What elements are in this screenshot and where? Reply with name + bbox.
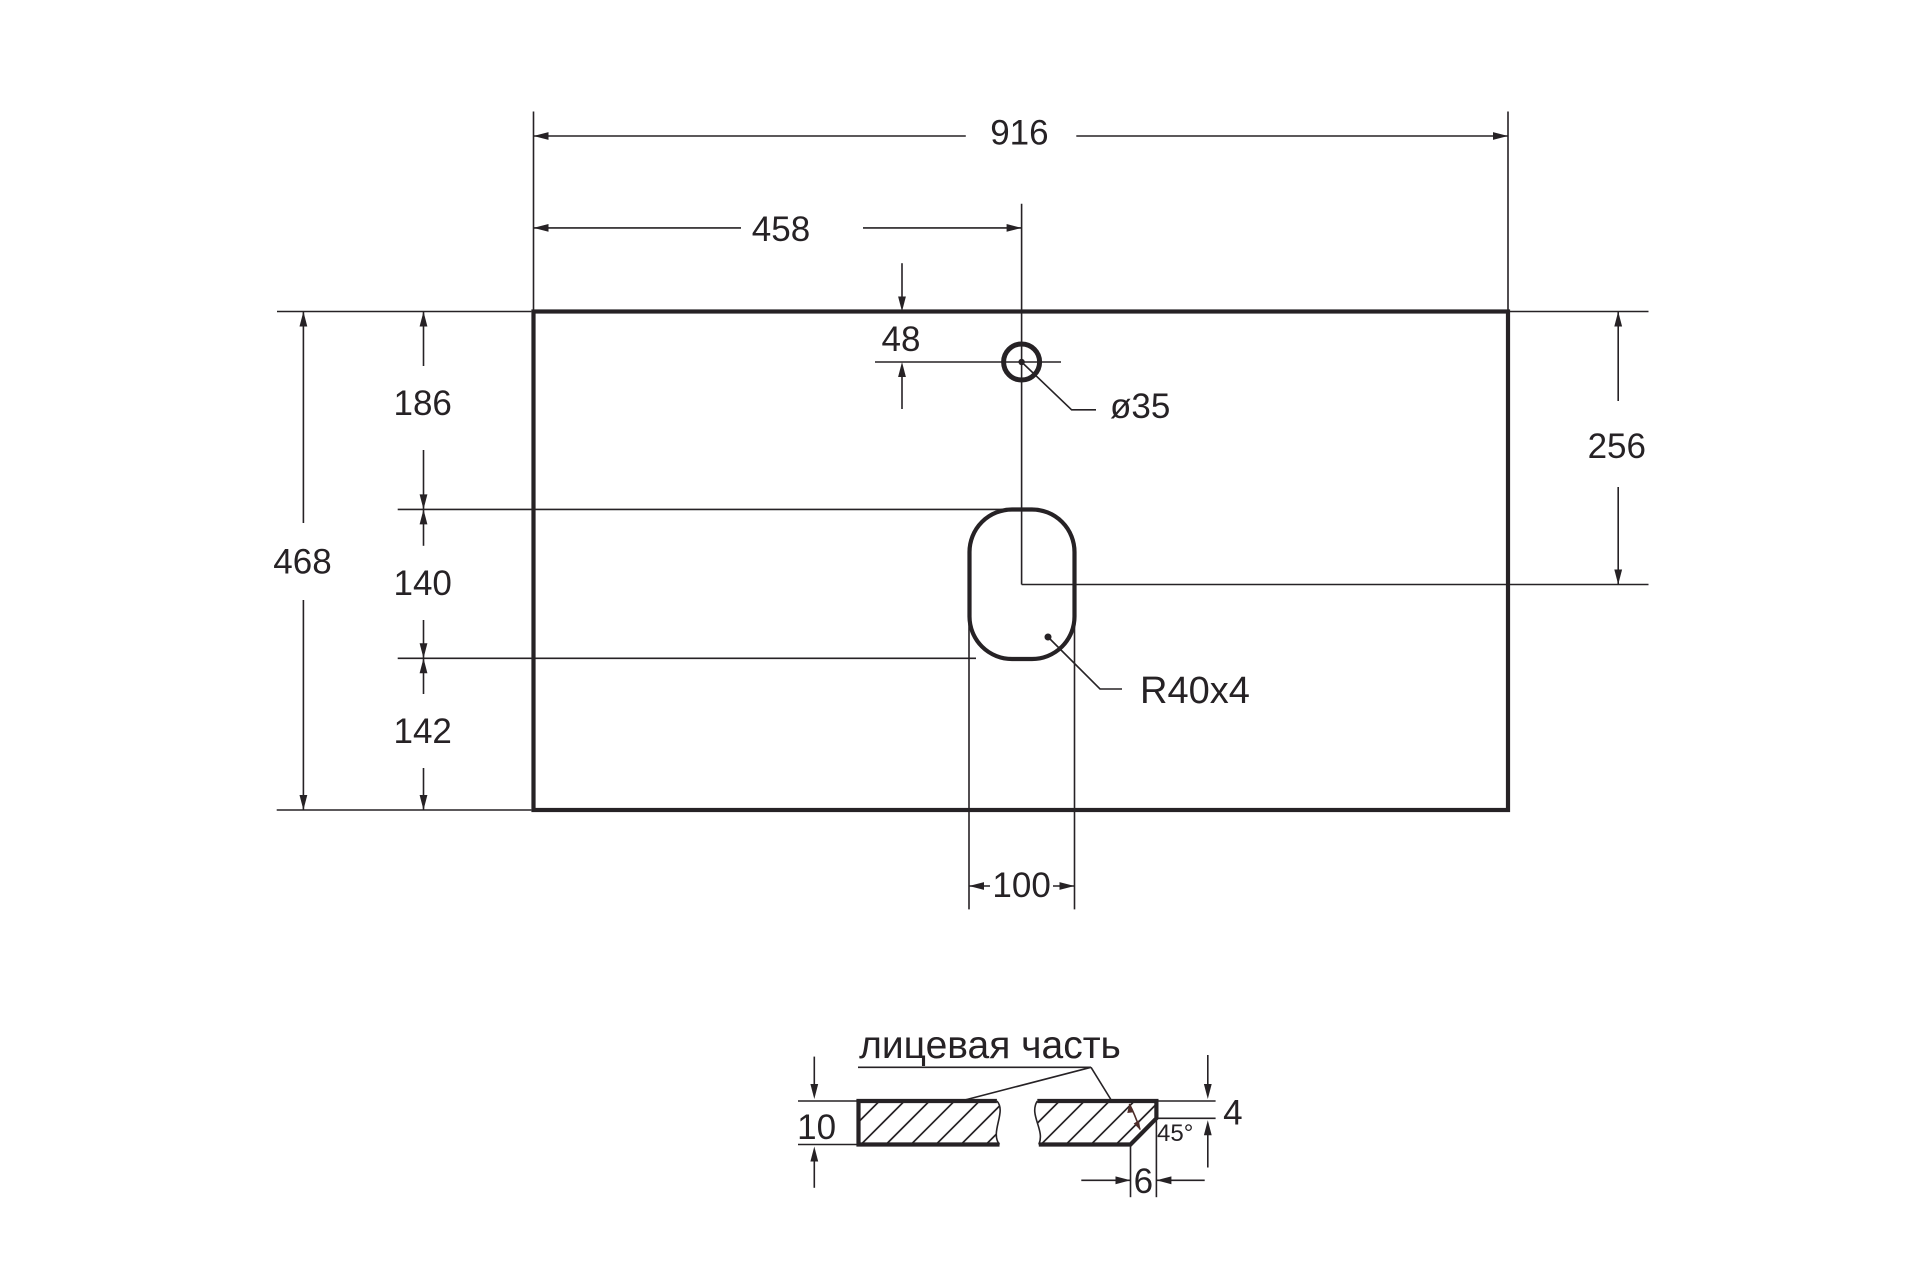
svg-text:4: 4 (1223, 1094, 1242, 1133)
section right bar outline with 45deg chamfer (1037, 1101, 1156, 1145)
extension lines for 4 (1158, 1100, 1215, 1102)
svg-text:256: 256 (1588, 427, 1646, 466)
dimension 140 (423, 509, 425, 545)
section right bar break line (1035, 1101, 1041, 1145)
extension lines for 10 (798, 1100, 857, 1102)
oval tangent line bottom (140) (398, 657, 976, 659)
svg-text:100: 100 (992, 866, 1050, 905)
countertop outline (top view) (534, 312, 1509, 811)
svg-text:140: 140 (393, 564, 451, 603)
top-right extension line (1510, 311, 1649, 313)
svg-text:45°: 45° (1157, 1120, 1193, 1147)
leader R40x4 (1045, 634, 1052, 641)
svg-text:48: 48 (882, 320, 921, 359)
section left bar break line (996, 1101, 1000, 1145)
dimension 468 (302, 312, 304, 524)
dimension 4 (1207, 1055, 1209, 1088)
hole vertical centerline (1021, 204, 1023, 585)
dimension 10 (813, 1057, 815, 1088)
leader o35 (1022, 362, 1096, 410)
section left bar outline (859, 1101, 1000, 1145)
extension line top-left corner (533, 112, 535, 310)
oval horizontal centerline to right (1022, 584, 1649, 586)
45 degree angle indicator (1129, 1104, 1140, 1130)
svg-text:916: 916 (990, 114, 1048, 153)
dimension 458 (534, 227, 742, 229)
dimension 6 (1081, 1179, 1130, 1181)
faucet hole o35 (1004, 344, 1040, 380)
svg-text:ø35: ø35 (1110, 387, 1170, 426)
svg-text:10: 10 (797, 1108, 836, 1147)
dimension 186 (423, 312, 425, 367)
dimension 100 (969, 885, 990, 887)
dimension 48 (901, 263, 903, 298)
svg-text:468: 468 (273, 543, 331, 582)
extension lines for 100 (968, 620, 970, 909)
left outer extension lines (277, 311, 531, 313)
dimension 256 (1617, 312, 1619, 402)
hole horizontal centerline (875, 361, 1061, 363)
extension line top-right corner (1507, 112, 1509, 310)
svg-text:R40x4: R40x4 (1140, 670, 1250, 712)
oval tangent line top (186) (398, 508, 1003, 510)
svg-text:6: 6 (1134, 1162, 1153, 1201)
sink cutout oval R40x4 (970, 510, 1075, 660)
svg-text:142: 142 (393, 712, 451, 751)
section label leader (858, 1067, 1091, 1101)
svg-text:186: 186 (393, 384, 451, 423)
dimension 142 (423, 658, 425, 694)
extension lines for 6 (1130, 1147, 1132, 1198)
svg-text:лицевая часть: лицевая часть (859, 1024, 1121, 1067)
svg-text:458: 458 (752, 210, 810, 249)
dimension 916 (534, 135, 966, 137)
